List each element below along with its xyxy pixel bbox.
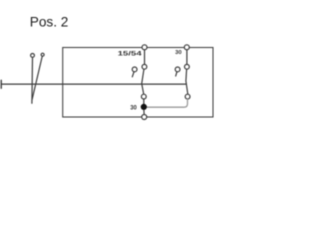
blade S2 connecting contact 2a to common — [186, 69, 188, 94]
contact 1b open blade stub — [132, 72, 134, 77]
wire from node 30 down to bottom terminal — [143, 110, 145, 114]
switch housing box outline — [63, 48, 213, 118]
contact 2b open blade stub — [176, 72, 177, 76]
lever knob position 1 circle — [41, 53, 44, 56]
terminal 30 circle on bottom border — [142, 115, 147, 120]
contact 1a circle — [142, 64, 147, 69]
terminal 30 circle on top border — [184, 45, 189, 50]
wire stem from terminal 30 down — [186, 50, 188, 64]
terminal 15/54 circle on top border — [142, 45, 147, 50]
svg-text:Pos. 2: Pos. 2 — [30, 15, 69, 30]
terminal stub at left edge — [0, 80, 2, 88]
lever arm position 1 — [32, 56, 42, 99]
wire stem from terminal 15/54 down — [144, 50, 146, 64]
lever arm position 0 — [31, 57, 34, 103]
svg-text:15/54: 15/54 — [118, 51, 142, 58]
blade S1 connecting contact 1a to common — [142, 69, 144, 94]
blade S2 lower circle — [185, 94, 190, 99]
lever knob position 0 circle — [31, 54, 35, 58]
svg-text:30: 30 — [130, 106, 137, 112]
wire from blade S1 circle down to node 30 — [143, 99, 145, 104]
svg-text:30: 30 — [175, 50, 182, 56]
node 30 junction dot — [141, 104, 147, 110]
contact 2b circle — [175, 67, 180, 72]
blade S1 lower circle — [141, 94, 146, 99]
wire main horizontal from left edge to blade S2 — [1, 83, 186, 85]
gray link wire from node 30 to blade S2 — [147, 99, 188, 107]
contact 2a circle — [185, 64, 190, 69]
contact 1b circle — [132, 67, 137, 72]
